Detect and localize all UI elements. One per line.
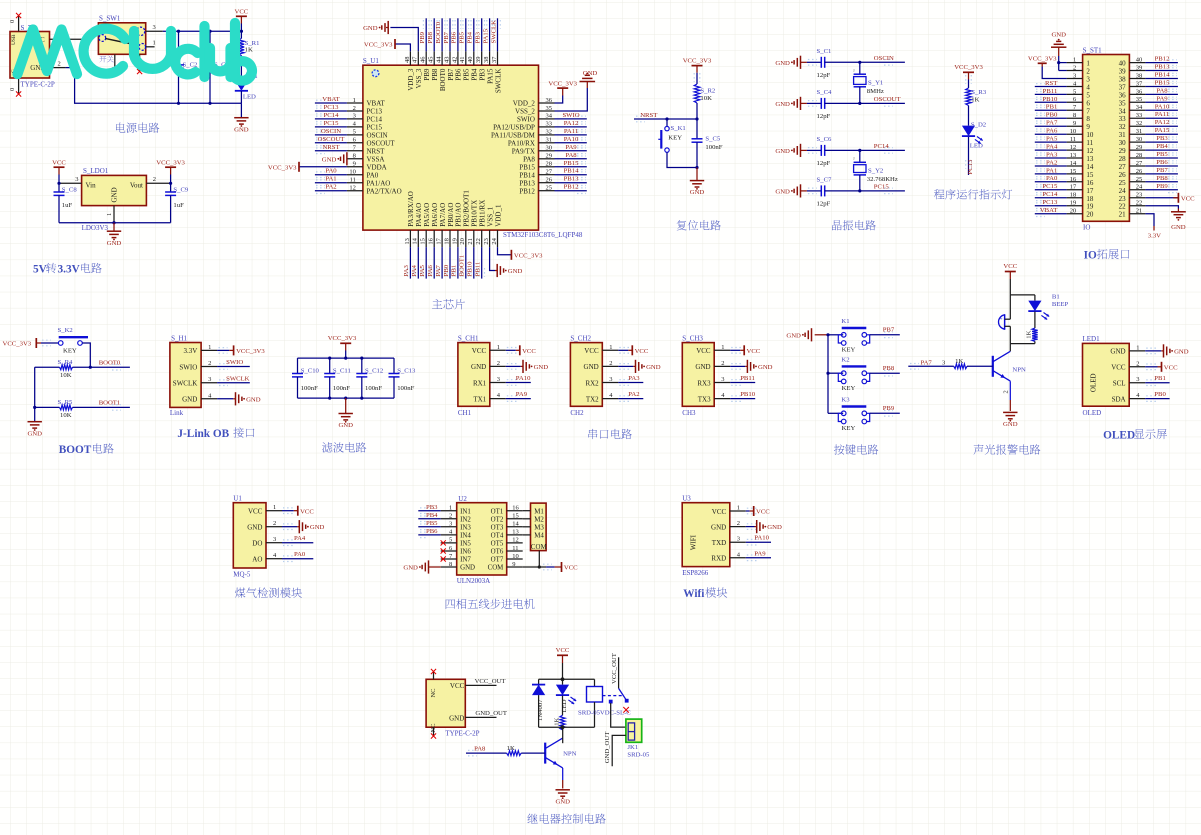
svg-text:IN4: IN4 (460, 533, 471, 540)
svg-text:PA12: PA12 (564, 120, 579, 127)
svg-text:VCC: VCC (556, 647, 570, 654)
pin U1.17 PA7/AO (441, 230, 443, 247)
wire top rail (1010, 294, 1035, 296)
wire net VCC_OUT vertical (618, 657, 620, 688)
pin S_CH3.2 GND (714, 365, 730, 367)
wire net PB4 (1145, 149, 1178, 151)
svg-text:OLED: OLED (1090, 373, 1098, 392)
svg-text:32: 32 (1119, 123, 1127, 131)
svg-text:WIFI: WIFI (689, 534, 697, 550)
svg-text:OT6: OT6 (491, 549, 504, 556)
svg-text:5: 5 (353, 129, 356, 136)
pin ST1.6 left (1067, 101, 1083, 103)
junction (177, 102, 180, 105)
svg-text:15: 15 (512, 513, 519, 520)
wire net PA12 (1145, 125, 1178, 127)
driver U2 ULN2003A (457, 503, 507, 575)
svg-text:NRST: NRST (322, 144, 339, 151)
svg-text:S_K1: S_K1 (671, 125, 686, 132)
svg-text:COM: COM (488, 565, 504, 572)
svg-text:BOOT0: BOOT0 (435, 21, 442, 43)
wire net PB10 (473, 247, 475, 279)
svg-text:PA3: PA3 (628, 375, 640, 382)
svg-text:PA11/USB/DM: PA11/USB/DM (491, 132, 536, 140)
svg-text:PA7: PA7 (921, 360, 933, 367)
svg-text:PB4: PB4 (471, 68, 479, 81)
svg-text:S_C1: S_C1 (817, 48, 832, 55)
pin LED1.1 GND (1129, 350, 1145, 352)
wire net PC14 (315, 118, 347, 120)
svg-text:34: 34 (546, 113, 553, 120)
svg-text:VCC_3V3: VCC_3V3 (236, 348, 265, 355)
pin ST1.31 right (1129, 133, 1145, 135)
ground GND (1146, 348, 1156, 354)
svg-text:20: 20 (459, 238, 466, 245)
junction (328, 397, 331, 400)
wire net PB8 (1145, 181, 1178, 183)
svg-text:9: 9 (512, 561, 515, 568)
svg-text:2: 2 (58, 60, 61, 67)
wire net PC13 (315, 110, 347, 112)
ground GND (800, 144, 802, 157)
svg-text:LED: LED (243, 94, 256, 101)
svg-text:SRD-05VDC-SL-C: SRD-05VDC-SL-C (578, 710, 631, 717)
svg-text:IN6: IN6 (460, 549, 471, 556)
svg-text:29: 29 (1119, 147, 1127, 155)
svg-text:1: 1 (1136, 344, 1139, 351)
svg-text:26: 26 (1136, 168, 1143, 175)
wire net PB11 (731, 380, 741, 386)
wire net PA4 (283, 540, 293, 546)
svg-text:10K: 10K (700, 95, 712, 102)
wire net SWCLK (497, 18, 499, 51)
title 按键电路 (834, 444, 845, 454)
svg-text:36: 36 (1136, 88, 1143, 95)
svg-text:COM: COM (531, 544, 547, 551)
svg-text:PA10: PA10 (754, 535, 769, 542)
svg-text:19: 19 (451, 238, 458, 245)
svg-text:PB3: PB3 (1156, 135, 1168, 142)
wire net RST (1035, 86, 1067, 88)
svg-text:0: 0 (9, 88, 16, 91)
pin ST1.33 right (1129, 117, 1145, 119)
regulator LDO1 LDO3V3 (82, 175, 147, 205)
svg-text:SWCLK: SWCLK (173, 380, 198, 388)
svg-text:PB10/TX: PB10/TX (471, 200, 479, 227)
wire net PA4 (1035, 149, 1067, 151)
svg-text:PA7: PA7 (435, 264, 442, 276)
svg-text:PA9: PA9 (1156, 95, 1168, 102)
buzzer B1 BEEP (999, 315, 1005, 329)
wire net PA6 (1035, 133, 1067, 135)
svg-text:S_C12: S_C12 (365, 368, 383, 375)
power VCC_3V3 at U1.24 (498, 247, 512, 255)
wire net PC14 (1035, 197, 1067, 199)
svg-text:S_C10: S_C10 (301, 368, 320, 375)
pin ST1.12 left (1067, 149, 1083, 151)
svg-text:K3: K3 (841, 397, 850, 404)
svg-text:PB10: PB10 (740, 391, 756, 398)
wire net PB5 (418, 526, 440, 528)
svg-text:2: 2 (153, 176, 156, 183)
svg-text:NRST: NRST (640, 112, 657, 119)
svg-text:PB5: PB5 (426, 520, 438, 527)
wire net PB15 (1145, 86, 1178, 88)
svg-text:S_LDO1: S_LDO1 (83, 167, 109, 175)
no-connect top (433, 672, 435, 680)
svg-text:NRST: NRST (367, 147, 386, 155)
svg-text:BOOT1: BOOT1 (99, 400, 121, 407)
svg-text:1: 1 (1073, 57, 1076, 64)
svg-text:2: 2 (609, 360, 612, 367)
svg-text:9: 9 (1073, 120, 1076, 127)
wire net PA10 (1145, 109, 1178, 111)
svg-text:ULN2003A: ULN2003A (457, 577, 490, 585)
svg-text:PC14: PC14 (324, 112, 340, 119)
capacitor C2 100nF (178, 31, 180, 65)
pin ST1.13 left (1067, 157, 1083, 159)
pin U1.14 PA4/AO (417, 230, 419, 247)
svg-text:3.3V: 3.3V (1148, 232, 1161, 239)
pin U1.47 VSS_3 (417, 51, 419, 65)
svg-text:IO: IO (1084, 249, 1097, 261)
title 声光报警电路 (973, 444, 983, 454)
svg-text:6: 6 (1086, 99, 1090, 107)
svg-text:PA8: PA8 (523, 155, 535, 163)
wire net OSCOUT (315, 142, 347, 144)
svg-text:PA6: PA6 (1046, 128, 1058, 135)
svg-text:GND: GND (1051, 32, 1066, 39)
pin ST1.27 right (1129, 165, 1145, 167)
svg-text:PA8: PA8 (565, 152, 577, 159)
pin U2.6 IN6 (441, 550, 457, 552)
svg-text:VCC: VCC (1003, 263, 1017, 270)
connector CH2 (570, 343, 602, 407)
svg-text:PA0: PA0 (1046, 175, 1058, 182)
svg-text:M2: M2 (534, 516, 544, 523)
svg-text:RX2: RX2 (585, 379, 599, 387)
wire net PA9 (1145, 101, 1178, 103)
svg-text:KEY: KEY (668, 134, 682, 141)
svg-text:PC15: PC15 (1042, 183, 1058, 190)
svg-text:43: 43 (443, 57, 450, 64)
svg-text:PA2: PA2 (325, 184, 336, 191)
LED (1034, 295, 1036, 301)
title 继电器控制电路 (527, 814, 537, 824)
svg-text:1: 1 (208, 344, 211, 351)
svg-text:TYPE-C-2P: TYPE-C-2P (21, 81, 55, 89)
svg-text:GND: GND (711, 523, 726, 531)
svg-text:M3: M3 (534, 524, 544, 531)
pin ST1.20 left (1067, 213, 1083, 215)
svg-text:PB15: PB15 (1155, 80, 1171, 87)
pin U1.39 PB3 (481, 51, 483, 65)
svg-text:U3: U3 (682, 494, 691, 502)
push button K1 KEY (666, 119, 668, 126)
pin U2.11 OT6 (507, 550, 523, 552)
svg-text:PA10: PA10 (564, 136, 579, 143)
svg-text:PA2: PA2 (1046, 159, 1057, 166)
svg-text:KEY: KEY (842, 346, 856, 353)
resistor R1 1K (240, 31, 242, 38)
wire bottom rail (298, 397, 395, 399)
svg-text:100nF: 100nF (397, 385, 414, 392)
wire net PA9 (747, 555, 757, 561)
svg-text:ESP8266: ESP8266 (682, 569, 709, 577)
svg-text:OT4: OT4 (491, 533, 504, 540)
svg-text:S_C8: S_C8 (62, 186, 78, 193)
svg-text:28: 28 (1119, 155, 1127, 163)
power VCC_3V3 at U1.36 (555, 96, 563, 104)
pin LED1.4 SDA (1129, 398, 1145, 400)
svg-text:PA3: PA3 (403, 264, 410, 276)
svg-text:35: 35 (1119, 99, 1127, 107)
svg-text:3: 3 (609, 376, 612, 383)
svg-text:32: 32 (1136, 120, 1143, 127)
pin U1.3 PC14 (347, 118, 363, 120)
svg-text:OLED: OLED (1083, 409, 1102, 417)
svg-text:PB15: PB15 (564, 160, 580, 167)
svg-text:PB8: PB8 (431, 68, 439, 81)
svg-text:VCC_3V3: VCC_3V3 (328, 335, 357, 342)
svg-text:VCC_3V3: VCC_3V3 (268, 164, 297, 171)
capacitor C9 1uF (170, 183, 172, 192)
relay linkage dashed (603, 695, 623, 697)
svg-text:IN2: IN2 (460, 516, 471, 523)
svg-text:GND: GND (584, 363, 599, 371)
svg-text:PB0/AO: PB0/AO (447, 203, 455, 227)
svg-text:3: 3 (737, 536, 740, 543)
svg-text:20: 20 (1070, 208, 1077, 215)
svg-text:GND: GND (1174, 348, 1189, 355)
svg-text:VCC_3V3: VCC_3V3 (156, 159, 185, 166)
title 四相五线步进电机 (446, 599, 455, 609)
header H1 J-Link OB (170, 343, 201, 408)
svg-text:VBAT: VBAT (367, 100, 386, 108)
svg-text:21: 21 (1136, 208, 1143, 215)
svg-text:12pF: 12pF (817, 200, 831, 207)
no-connect bottom (433, 727, 435, 735)
svg-text:VBAT: VBAT (322, 96, 339, 103)
svg-text:VSSA: VSSA (367, 155, 385, 163)
svg-text:2: 2 (208, 360, 211, 367)
svg-text:IN3: IN3 (460, 524, 471, 531)
svg-text:PA10: PA10 (516, 375, 531, 382)
svg-text:1K: 1K (971, 97, 979, 104)
svg-text:38: 38 (1119, 76, 1127, 84)
svg-text:29: 29 (1136, 144, 1143, 151)
svg-text:1: 1 (1086, 60, 1090, 68)
svg-text:2: 2 (1073, 65, 1076, 72)
svg-text:39: 39 (1136, 65, 1143, 72)
no-connect U2.6 (441, 548, 446, 553)
svg-text:21: 21 (1119, 211, 1127, 219)
pin U1.36 VDD_2 (539, 102, 555, 104)
power VCC_3V3 at U1.9 VDDA (299, 166, 347, 168)
svg-text:5V: 5V (33, 263, 48, 275)
pin U3.2 GND (730, 526, 746, 528)
svg-text:PB3: PB3 (426, 504, 438, 511)
relay coil (594, 679, 596, 686)
svg-text:3: 3 (208, 376, 211, 383)
svg-text:37: 37 (1119, 84, 1127, 92)
title 主芯片 (432, 299, 442, 309)
svg-text:5: 5 (1073, 88, 1076, 95)
svg-text:OSCIN: OSCIN (321, 128, 341, 135)
svg-text:KEY: KEY (842, 425, 856, 432)
capacitor S_C6 12pF (807, 149, 821, 151)
svg-text:38: 38 (1136, 72, 1143, 79)
ground GND (345, 398, 347, 413)
svg-text:VCC_OUT: VCC_OUT (611, 653, 618, 684)
pin U1.27 PB14 (539, 174, 555, 176)
svg-text:Vout: Vout (130, 182, 143, 190)
svg-text:VCC: VCC (472, 347, 487, 355)
wire net PB12 (555, 190, 587, 192)
no-connect U2.7 (441, 556, 446, 561)
wire net PA5 (425, 247, 427, 279)
wire net PB1 (1146, 380, 1156, 386)
svg-text:10: 10 (1086, 131, 1094, 139)
ground at U1.35 (555, 88, 588, 111)
wire net PA1 (1035, 173, 1067, 175)
svg-text:S_C5: S_C5 (705, 136, 721, 143)
pin ST1.28 right (1129, 157, 1145, 159)
svg-text:TX1: TX1 (473, 395, 486, 403)
pin U1.1 VCC (266, 510, 282, 512)
svg-text:OT1: OT1 (491, 508, 504, 515)
title 复位电路 (677, 220, 687, 230)
wire net PA9 (555, 150, 587, 152)
svg-text:PA9: PA9 (565, 144, 577, 151)
connector TYPE-C-2P output (426, 679, 465, 727)
wire net PB0 (1146, 396, 1156, 402)
svg-text:20: 20 (1086, 211, 1094, 219)
svg-text:8MHz: 8MHz (867, 88, 884, 95)
wire net PB5 (465, 18, 467, 51)
svg-text:7: 7 (1086, 107, 1090, 115)
logo MCUclub (18, 23, 252, 81)
svg-text:PA15: PA15 (1155, 127, 1170, 134)
MCU U1 STM32F103C8T6_LQFP48 (363, 65, 539, 230)
resistor 1K (562, 696, 564, 716)
ground GND (811, 328, 813, 341)
pin U1.45 PB8 (433, 51, 435, 65)
svg-text:30: 30 (1119, 139, 1127, 147)
svg-text:~: ~ (852, 157, 858, 160)
pin H1.2 SWIO (201, 366, 217, 368)
ground GND at H1.4 (217, 398, 233, 400)
svg-text:1: 1 (497, 344, 500, 351)
svg-text:VCC: VCC (52, 159, 66, 166)
svg-text:VCC: VCC (635, 348, 649, 355)
wire net BOOT0 (441, 18, 443, 51)
pin U1.12 PA2/TX/AO (347, 190, 363, 192)
svg-text:SRD-05: SRD-05 (627, 751, 650, 758)
svg-text:22: 22 (1136, 200, 1143, 207)
svg-text:27: 27 (546, 169, 553, 176)
capacitor S_C11 100nF (329, 358, 331, 373)
ground GND (800, 184, 802, 197)
svg-text:PC13: PC13 (967, 159, 974, 175)
svg-text:PB12: PB12 (1155, 56, 1170, 63)
svg-text:2: 2 (1002, 390, 1009, 393)
pin H1.3 SWCLK (201, 382, 217, 384)
pin U2.5 IN5 (441, 542, 457, 544)
pin ST1.37 right (1129, 86, 1145, 88)
svg-text:40: 40 (1136, 57, 1143, 64)
pin U1.3 DO (266, 542, 282, 544)
wire net PA7 (1035, 125, 1067, 127)
no-connect U2.5 (441, 540, 446, 545)
svg-text:OLED: OLED (1103, 429, 1135, 441)
resistor 1K on base (507, 751, 522, 756)
junction (112, 221, 115, 224)
power VCC (619, 348, 629, 354)
wire bottom rail (539, 726, 595, 728)
svg-text:PB13: PB13 (1155, 64, 1171, 71)
svg-text:3.3V: 3.3V (58, 263, 81, 275)
svg-text:1: 1 (449, 505, 452, 512)
wire net PB3 (418, 510, 440, 512)
svg-text:9: 9 (1086, 123, 1090, 131)
pin U1.23 VSS_1 (489, 230, 491, 247)
pin SW1.3 (146, 30, 163, 32)
svg-text:GND: GND (363, 25, 378, 32)
pin U1.20 PB2/BOOT1 (465, 230, 467, 247)
wire net PB13 (1145, 70, 1178, 72)
power VCC_3V3 at U1.48 (395, 44, 410, 51)
pin U2.9 COM (507, 566, 523, 568)
ground GND (113, 223, 115, 232)
svg-text:3.3V: 3.3V (183, 347, 197, 355)
svg-text:3: 3 (273, 536, 276, 543)
svg-text:S_D2: S_D2 (971, 121, 986, 128)
svg-text:3: 3 (353, 113, 356, 120)
wire net PB15 (555, 166, 587, 168)
wire net GND_OUT (465, 716, 496, 718)
pin U1.24 VDD_1 (497, 230, 499, 247)
wire net BOOT1 (73, 406, 130, 408)
svg-text:VDD_2: VDD_2 (513, 100, 536, 108)
pin U1.32 PA11/USB/DM (539, 134, 555, 136)
svg-text:PB0: PB0 (1046, 112, 1058, 119)
svg-text:~: ~ (852, 69, 858, 72)
wire net PB7 (449, 18, 451, 51)
svg-text:PA10/RX: PA10/RX (508, 139, 535, 147)
label net OSCOUT (884, 101, 893, 107)
svg-text:RX3: RX3 (697, 379, 711, 387)
pin U2.7 IN7 (441, 558, 457, 560)
svg-text:PA7/AO: PA7/AO (439, 203, 447, 227)
svg-text:VCC_3V3: VCC_3V3 (3, 340, 32, 347)
svg-text:11: 11 (512, 545, 518, 552)
pin U1.16 PA6/AO (433, 230, 435, 247)
svg-text:GND: GND (310, 524, 325, 531)
LED D2 (962, 126, 975, 137)
wire net PB7 (870, 334, 900, 336)
junction (89, 366, 92, 369)
svg-text:Vin: Vin (86, 182, 97, 190)
svg-text:2: 2 (1136, 360, 1139, 367)
pin U2.16 OT1 (507, 510, 523, 512)
svg-text:PA15: PA15 (486, 68, 494, 84)
svg-text:LED: LED (561, 699, 568, 712)
pin H1.4 GND (201, 398, 217, 400)
label net PC14 (884, 148, 893, 154)
svg-text:3: 3 (75, 176, 78, 183)
svg-text:PB7: PB7 (883, 327, 895, 334)
